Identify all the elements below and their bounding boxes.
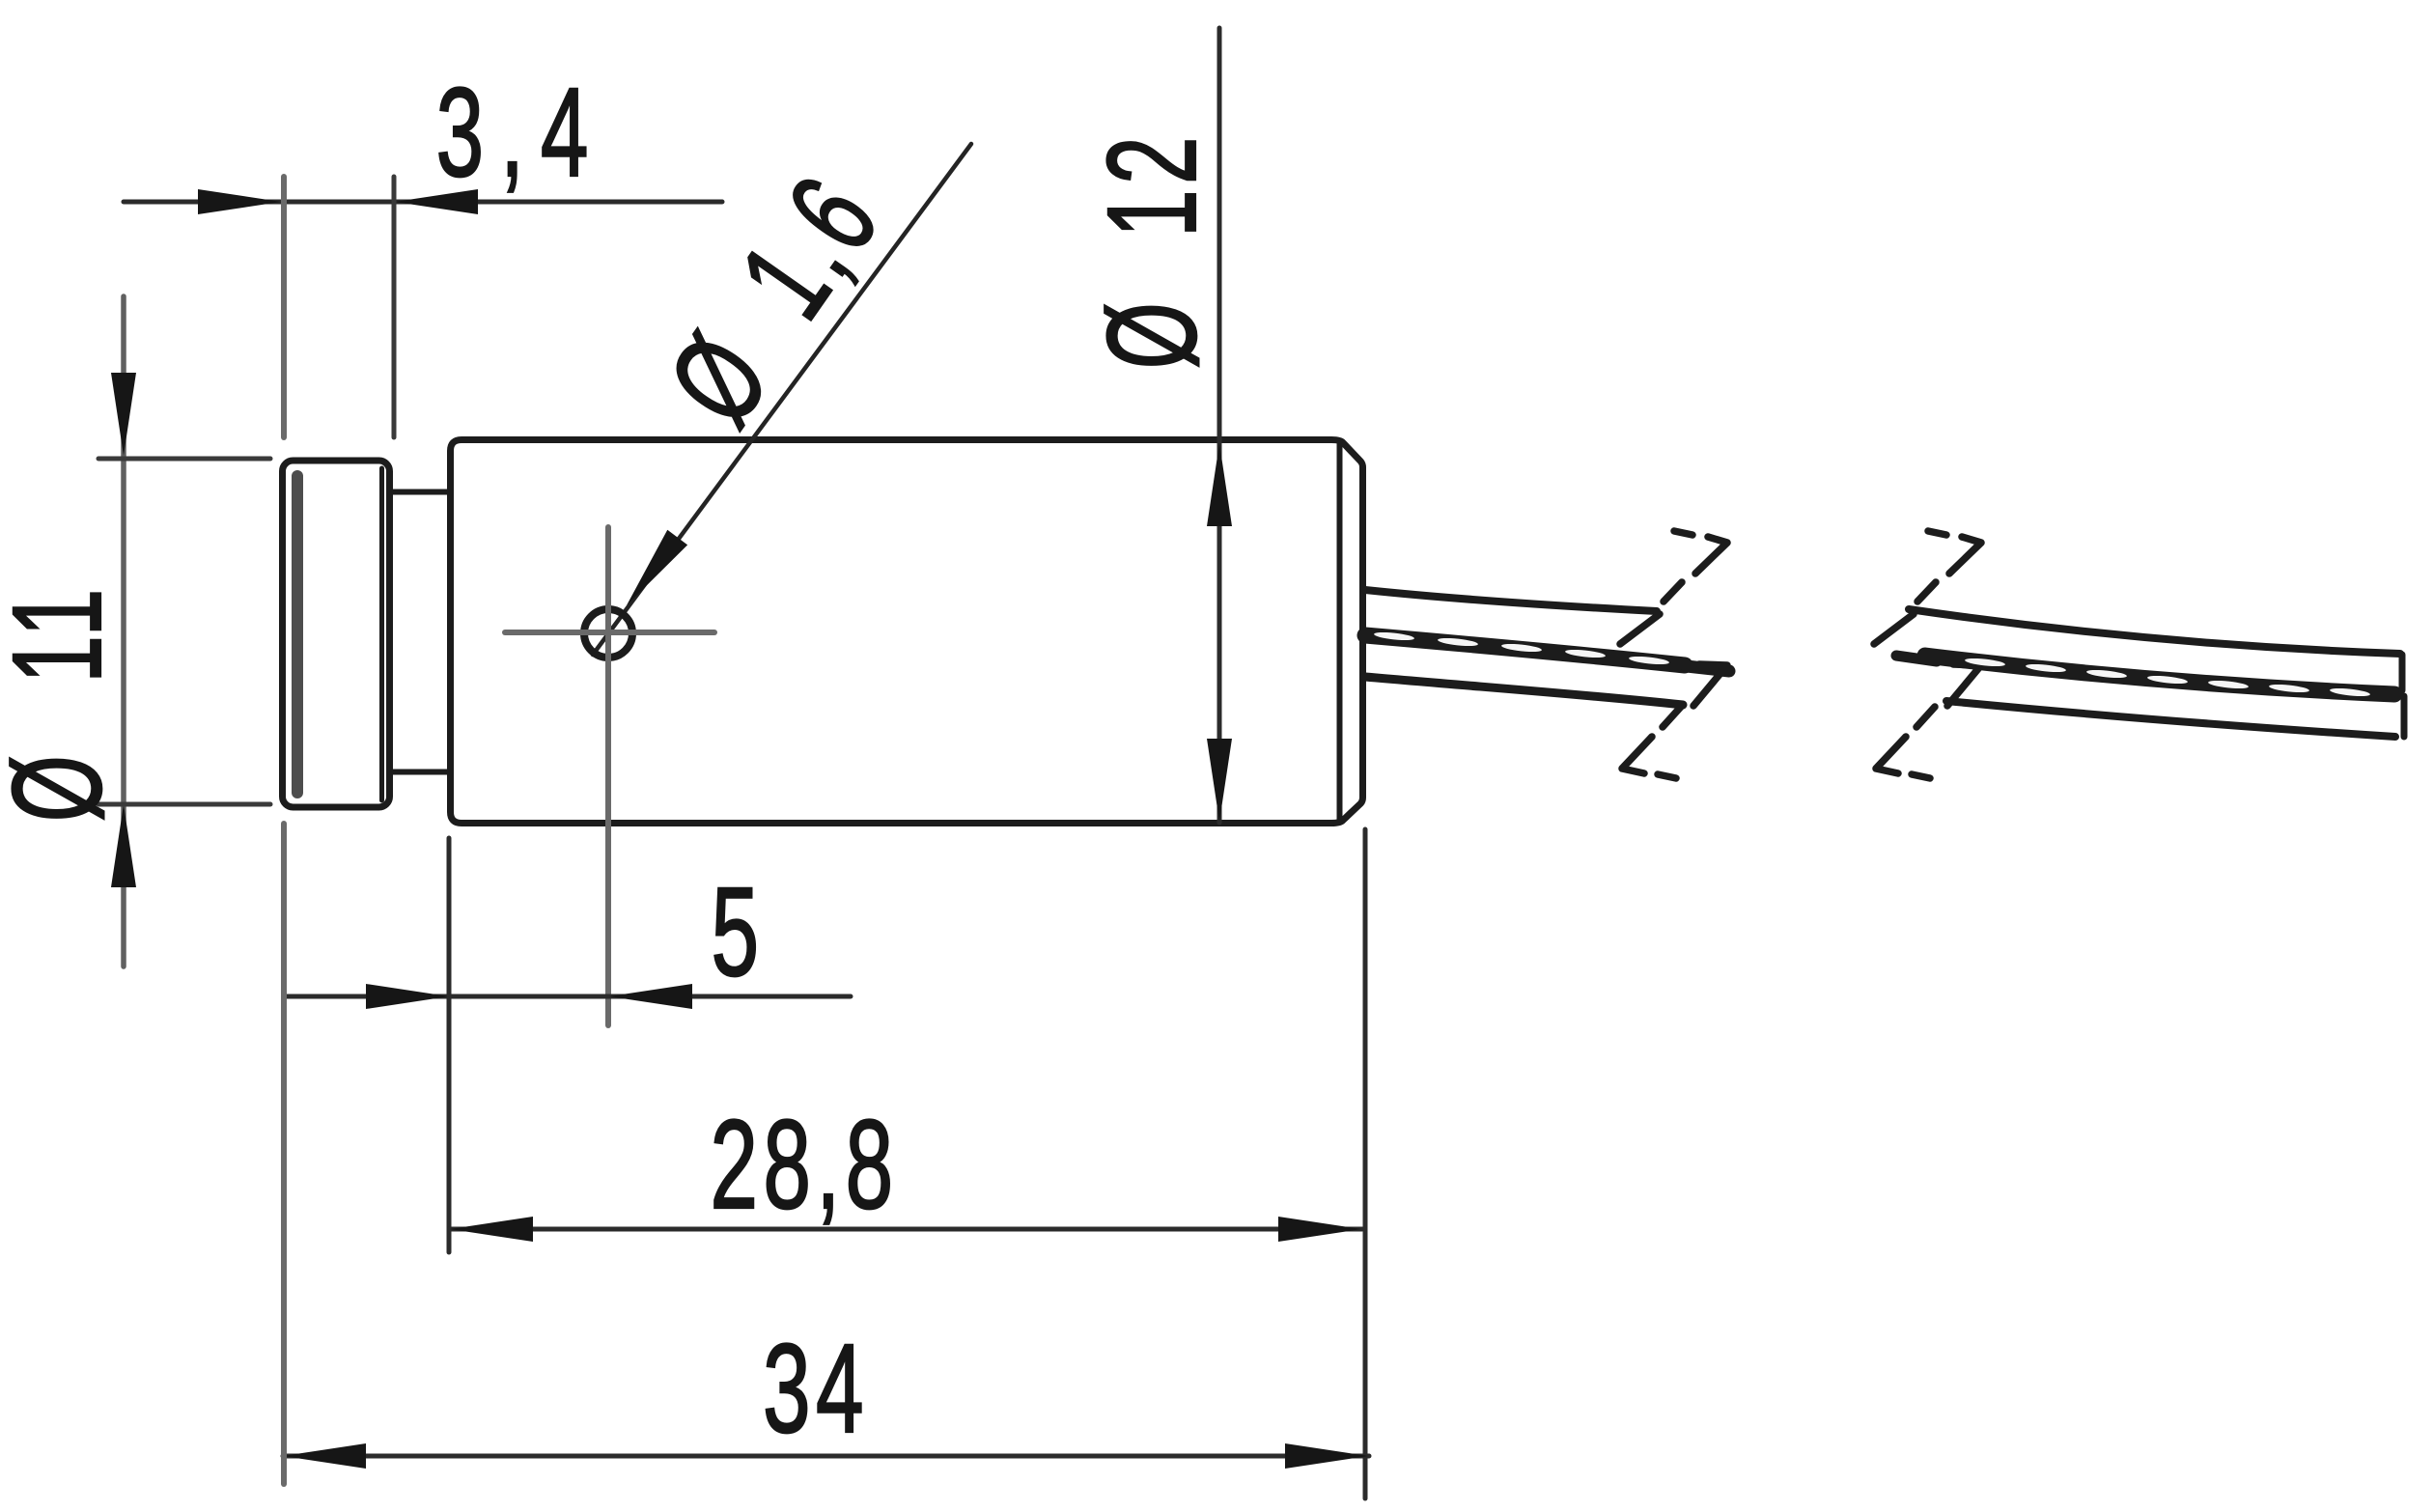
- dimension diameter 11 line: [121, 296, 126, 966]
- housing body outline: [451, 440, 1363, 824]
- svg-text:Ø: Ø: [1081, 297, 1222, 370]
- dimension 28,8 arrow left: [450, 1217, 533, 1242]
- dimension 12 arrow down: [1207, 739, 1232, 822]
- twisted pair band (right section): [1896, 656, 1937, 661]
- svg-text:Ø: Ø: [0, 750, 127, 823]
- extension line cap left: [281, 177, 287, 437]
- step neck top edge: [392, 490, 450, 495]
- dimension diameter 12 line: [1217, 28, 1222, 823]
- svg-text:12: 12: [1081, 131, 1222, 238]
- extension line body left: [447, 838, 452, 1252]
- extension tick cap bottom: [98, 802, 270, 807]
- dimension 12 arrow up: [1207, 443, 1232, 526]
- extension line cap left lower: [281, 824, 287, 1484]
- wire upper (right section): [1909, 609, 2400, 654]
- dimension 5 arrow left: [609, 984, 692, 1009]
- extension tick cap top: [98, 457, 270, 462]
- twisted pair band (left section): [1365, 635, 1685, 665]
- extension line cap right: [392, 177, 397, 437]
- dimension 5 arrow right: [366, 984, 449, 1009]
- wire upper (left section): [1365, 590, 1657, 611]
- dimension 34 arrow left: [283, 1443, 366, 1469]
- step neck bottom edge: [392, 770, 450, 775]
- break mark pair 1: [1620, 531, 1727, 778]
- lens cap outline: [283, 461, 390, 807]
- dimension 11 arrow up: [111, 804, 136, 887]
- dimension 28,8 arrow right: [1278, 1217, 1361, 1242]
- leader line for hole: [593, 144, 971, 655]
- wire lower (left section): [1365, 677, 1683, 705]
- dimension 28,8 line: [449, 1227, 1362, 1232]
- leader arrowhead: [617, 530, 688, 613]
- lens cap inner edge line: [379, 468, 384, 800]
- dimension 11 arrow down: [111, 373, 136, 456]
- dimension 34 arrow right: [1285, 1443, 1368, 1469]
- wire end cap lower: [2401, 696, 2408, 737]
- hole vertical centerline: [605, 527, 611, 1025]
- dimension 34 line: [283, 1454, 1369, 1459]
- svg-text:5: 5: [712, 861, 765, 1002]
- extension line body right: [1363, 829, 1368, 1498]
- hole circle: [584, 609, 632, 658]
- dimension 3,4 line: [124, 200, 722, 205]
- lens cap shading line: [292, 476, 303, 793]
- svg-text:28,8: 28,8: [710, 1094, 898, 1235]
- svg-text:34: 34: [763, 1318, 869, 1459]
- housing chamfer inner edge: [1337, 443, 1343, 821]
- svg-text:3,4: 3,4: [436, 62, 605, 203]
- wire end cap upper: [2399, 655, 2406, 690]
- wire lower (right section): [1946, 701, 2395, 737]
- dimension 3,4 arrow left: [395, 189, 478, 214]
- dimension 5 line: [285, 994, 851, 999]
- dimension 3,4 arrow right: [198, 189, 281, 214]
- break mark pair 2: [1874, 531, 1981, 778]
- hole horizontal centerline: [505, 630, 714, 635]
- svg-text:11: 11: [0, 583, 127, 683]
